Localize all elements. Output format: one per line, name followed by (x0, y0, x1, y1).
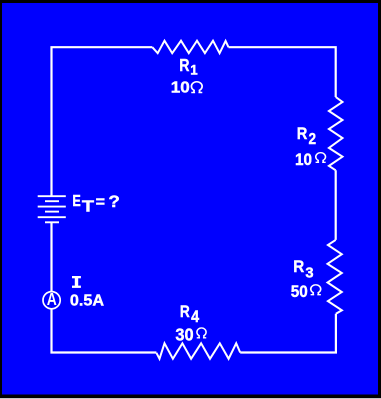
svg-text:1: 1 (190, 63, 198, 78)
label I (current) (72, 276, 81, 288)
svg-text:10: 10 (171, 79, 190, 96)
battery E_T: plate long 1 (38, 195, 66, 197)
svg-text:E: E (72, 193, 80, 210)
label R4 value omega (197, 328, 207, 338)
wire: R4 start to bottom-left corner up to ammeter bottom (52, 309, 157, 352)
battery plate short 2 (45, 211, 59, 213)
svg-text:?: ? (108, 192, 120, 211)
wire: R3 end to bottom-right corner to R4 end (240, 314, 336, 353)
svg-text:30: 30 (175, 324, 193, 344)
resistor R2 (329, 97, 343, 170)
resistor R4 (156, 343, 240, 359)
label R1 value omega (191, 82, 202, 93)
ammeter A1 circle (43, 292, 60, 309)
battery plate long 2 (38, 206, 66, 208)
label R3 value omega (311, 285, 321, 295)
svg-text:R: R (297, 124, 308, 143)
label R2 value omega (316, 153, 326, 163)
resistor R3 (328, 240, 342, 314)
ammeter letter A (47, 291, 57, 310)
battery plate long 3 (38, 216, 66, 218)
svg-text:T: T (82, 199, 95, 216)
battery plate short 3 (45, 221, 59, 223)
svg-text:3: 3 (305, 266, 313, 282)
wire: R2 end to R3 start (335, 170, 337, 240)
resistor R1 (152, 41, 228, 54)
svg-text:=: = (96, 194, 105, 211)
svg-text:R: R (180, 302, 190, 321)
svg-text:R: R (293, 257, 304, 276)
wire: left upper segment (battery top to top-left corner to R1 start) (52, 47, 153, 196)
battery plate short 1 (45, 200, 59, 202)
wire: ammeter top to battery bottom (50, 222, 52, 291)
wire: R1 end to top-right corner down to R2 start (229, 47, 336, 97)
svg-text:2: 2 (309, 131, 317, 148)
svg-text:4: 4 (191, 308, 200, 326)
bottom highlight edge (0, 398, 381, 399)
svg-text:R: R (179, 55, 190, 75)
svg-text:A: A (47, 291, 57, 310)
svg-text:50: 50 (291, 283, 308, 301)
svg-text:10: 10 (295, 151, 312, 169)
svg-text:0.5A: 0.5A (70, 293, 105, 310)
